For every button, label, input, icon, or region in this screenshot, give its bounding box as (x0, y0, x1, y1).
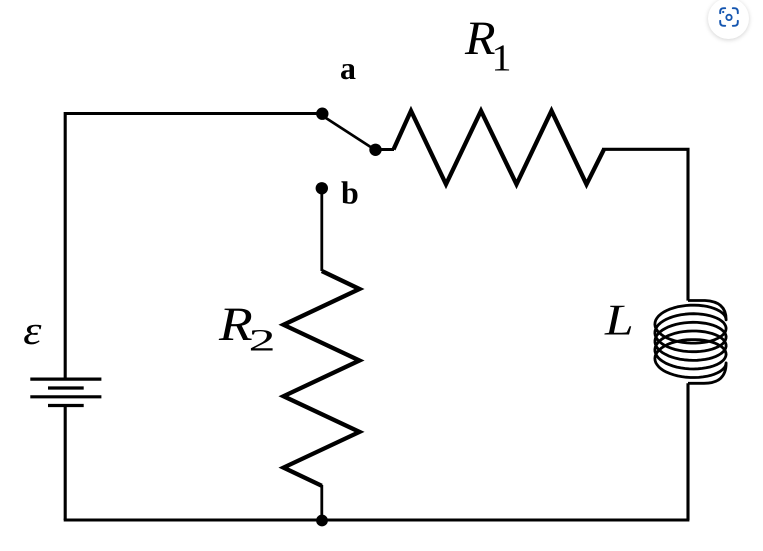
label b (341, 181, 357, 204)
wire: top from battery to node a (65, 114, 322, 380)
wire: R2 bottom to bottom wire (320, 485, 323, 520)
wire: bottom (64, 518, 690, 521)
screenshot lens button top-right (708, 0, 749, 39)
label R2 (219, 309, 252, 340)
wire: R1 to right corner and down to coil (602, 149, 688, 300)
junction dot bottom (316, 515, 328, 527)
wire: coil to bottom right corner (686, 383, 689, 520)
wire: pole to R1 (376, 148, 395, 151)
resistor R1 (394, 111, 605, 185)
node a (316, 108, 328, 120)
label L (604, 306, 631, 335)
node b (316, 182, 328, 194)
lens icon small dot (722, 11, 724, 13)
label epsilon (24, 325, 41, 345)
resistor R2 (284, 271, 360, 486)
switch blade a-pole (323, 116, 375, 150)
inductor L coil (655, 301, 726, 384)
label a (341, 64, 356, 79)
battery EMF source (30, 379, 101, 405)
lens icon corner brackets (720, 8, 725, 13)
wire: left lower from battery to bottom (64, 406, 67, 521)
wire: node b to R2 (320, 190, 323, 271)
lens icon center circle (726, 14, 731, 19)
switch pole dot (369, 144, 381, 156)
label R1 (465, 23, 495, 54)
